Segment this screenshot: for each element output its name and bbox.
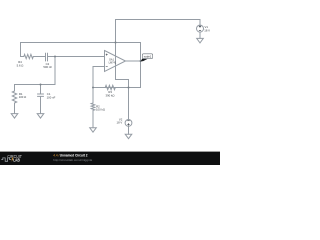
ground C1 (37, 114, 44, 119)
opamp minus pin mark (106, 65, 108, 67)
V2 plus mark (127, 123, 129, 125)
wire V1 to ground (199, 32, 201, 38)
wire wien tap drop (54, 57, 56, 85)
resistor R2 (91, 88, 95, 128)
node flag vout pointer (140, 59, 147, 62)
footer logo waveform (1, 158, 11, 161)
footer logo bolt (11, 157, 13, 161)
op-amp OA1 (105, 51, 126, 72)
ground R2 (90, 128, 97, 133)
svg-text:390 kΩ: 390 kΩ (106, 94, 115, 98)
svg-text:100 nF: 100 nF (47, 95, 56, 99)
opamp power riser (115, 20, 117, 80)
V1 plus mark (199, 25, 201, 27)
svg-text:http://circuitlab.com/c/4ggmk: http://circuitlab.com/c/4ggmk (53, 158, 93, 162)
V2 minus mark (127, 120, 129, 122)
resistor R4 (24, 54, 34, 58)
svg-text:Unnamed Circuit 2: Unnamed Circuit 2 (60, 153, 88, 157)
capacitor C1 (38, 85, 44, 114)
junction V2 node (128, 87, 130, 89)
capacitor C2 (46, 53, 48, 61)
wire opamp output (126, 60, 141, 62)
svg-text:4.4 /: 4.4 / (53, 153, 59, 157)
junction output node (140, 60, 142, 62)
wire feedback top (21, 42, 141, 44)
svg-text:5.6 Ω: 5.6 Ω (17, 63, 24, 67)
wire minus input (93, 67, 105, 88)
svg-text:18 V: 18 V (204, 28, 210, 32)
svg-text:100 Ω: 100 Ω (19, 95, 27, 99)
wire bottom feedback (93, 87, 141, 89)
svg-text:LAB: LAB (13, 157, 20, 163)
footer bar (0, 152, 220, 165)
node flag vout box (142, 54, 152, 59)
wire V2 to ground (128, 127, 130, 135)
footer logo CIRCUIT (7, 153, 22, 159)
opamp plus pin mark (106, 54, 108, 56)
wire to R4 (21, 56, 24, 58)
junction Vplus riser (115, 42, 117, 44)
wire top rail to V1 (116, 20, 201, 26)
voltage source V1 (197, 25, 204, 32)
junction wien tap (54, 56, 56, 58)
ground R1 (11, 114, 18, 119)
resistor R1 (12, 85, 16, 114)
resistor R3 (105, 85, 115, 89)
wire left drop (20, 43, 22, 57)
wire R4 to C2 (33, 56, 45, 58)
svg-text:LM741: LM741 (109, 62, 117, 65)
wire C2 to opamp plus input (48, 56, 105, 58)
opamp V- jog to V2 (116, 80, 129, 120)
junction minus node (92, 87, 94, 89)
ground V2 (125, 134, 132, 139)
wire wien bottom (15, 84, 56, 86)
wire output riser (140, 43, 142, 88)
svg-text:18 V: 18 V (117, 120, 123, 124)
svg-text:100 kΩ: 100 kΩ (96, 107, 105, 111)
svg-text:node1: node1 (144, 55, 152, 59)
V1 minus mark (199, 30, 201, 32)
footer logo LAB (13, 157, 20, 163)
ground V1 (197, 38, 204, 43)
junction C1 top (40, 84, 42, 86)
voltage source V2 (125, 120, 132, 127)
svg-text:500 nF: 500 nF (43, 65, 52, 69)
